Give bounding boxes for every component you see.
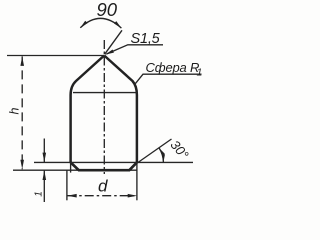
svg-text:1: 1 xyxy=(34,191,45,197)
svg-text:S1,5: S1,5 xyxy=(131,31,161,47)
svg-text:Сфера R: Сфера R xyxy=(146,60,200,75)
svg-text:h: h xyxy=(8,108,22,115)
svg-text:1: 1 xyxy=(197,67,203,79)
svg-text:d: d xyxy=(98,177,108,196)
svg-text:90: 90 xyxy=(97,0,118,20)
